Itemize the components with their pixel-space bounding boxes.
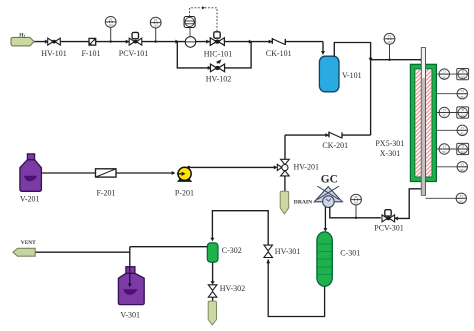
svg-text:DRAIN: DRAIN xyxy=(294,200,312,206)
svg-text:C-301: C-301 xyxy=(340,249,360,258)
gauge PI stem 2 xyxy=(155,28,157,42)
gauge PI stem 1 xyxy=(110,27,112,41)
gauge PI-1 xyxy=(105,17,116,28)
gauge PI-4 stem xyxy=(355,205,357,218)
svg-text:HV-102: HV-102 xyxy=(206,75,231,84)
wire GC to C-301 xyxy=(324,207,326,229)
valve PCV-101 xyxy=(126,40,130,44)
wire junction to reactor tube xyxy=(371,59,422,61)
gauge PI-3 xyxy=(384,33,395,44)
svg-text:HV-201: HV-201 xyxy=(294,163,319,172)
valve PCV-301 xyxy=(382,215,395,222)
node mix junction arrow xyxy=(369,58,373,62)
svg-text:CK-101: CK-101 xyxy=(266,49,292,58)
vessel C-301 xyxy=(317,232,332,286)
bottle V-301 xyxy=(118,267,144,305)
bottle V-201 xyxy=(20,154,42,191)
wire V-201 to pump xyxy=(41,172,95,174)
instrument TI row6 xyxy=(436,162,467,172)
filter F-201 xyxy=(96,169,117,177)
gauge PI-4 xyxy=(351,194,362,205)
gauge PI-2 xyxy=(150,17,161,28)
valve HIC-101 xyxy=(206,40,210,44)
instrument TI row2 xyxy=(436,89,467,99)
svg-text:VENT: VENT xyxy=(21,240,36,246)
svg-text:V-201: V-201 xyxy=(20,195,40,204)
vessel V-101 xyxy=(319,56,339,92)
svg-text:PCV-101: PCV-101 xyxy=(119,49,149,58)
svg-text:HV-101: HV-101 xyxy=(41,49,66,58)
wire pump discharge to HV-201 xyxy=(188,166,275,168)
check valve CK-201 xyxy=(285,134,329,136)
instrument TI row1 pair xyxy=(436,69,468,80)
valve HV-302 xyxy=(208,285,217,297)
node arrow into V-101 xyxy=(321,51,325,55)
reactor X-301 body xyxy=(410,64,436,181)
svg-text:H2: H2 xyxy=(19,33,25,39)
svg-text:HIC-101: HIC-101 xyxy=(204,49,232,58)
valve HV-201 three-way xyxy=(277,159,289,176)
flow indicator FE xyxy=(185,37,196,48)
wire main H2 feed line xyxy=(34,41,323,43)
svg-text:PX5-301: PX5-301 xyxy=(375,139,404,148)
wire HV-201 to drain vessel xyxy=(284,176,286,191)
filter F-101 xyxy=(89,38,96,45)
node bypass split xyxy=(175,40,179,44)
wire HV-301 up and over to C-302 xyxy=(212,211,268,245)
svg-text:X-301: X-301 xyxy=(380,149,400,158)
gauge PI-3 stem xyxy=(389,44,391,60)
wire drop into V-101 xyxy=(322,42,324,55)
reactor center tube xyxy=(421,48,425,196)
svg-text:V-301: V-301 xyxy=(120,311,140,320)
instrument TI row5 pair xyxy=(436,143,468,154)
node bypass rejoin xyxy=(249,40,253,44)
instrument TI row4 xyxy=(436,125,467,135)
wire C-302 to HV-302 xyxy=(212,262,214,282)
wire down to HV-201 xyxy=(284,135,286,159)
wire HV-302 to tube vessel xyxy=(212,297,214,301)
svg-text:P-201: P-201 xyxy=(175,189,194,198)
wire stem to HIC display xyxy=(189,28,191,37)
svg-text:HV-301: HV-301 xyxy=(275,247,300,256)
wire GC to PCV-301 xyxy=(330,207,381,218)
svg-text:PCV-301: PCV-301 xyxy=(374,224,404,233)
GC sampling valve xyxy=(314,186,342,207)
valve HV-301 xyxy=(266,260,270,264)
svg-text:HV-302: HV-302 xyxy=(220,284,245,293)
instrument gauge at tube bottom xyxy=(426,193,467,203)
wire F-201 to pump xyxy=(116,172,174,174)
svg-text:F-101: F-101 xyxy=(81,49,100,58)
wire V-101 outlet to reactor junction xyxy=(334,43,370,136)
svg-text:V-101: V-101 xyxy=(342,71,362,80)
wire V-301 dip tube xyxy=(129,267,131,284)
wire C-302 left to vent junction xyxy=(130,246,208,248)
vessel C-302 xyxy=(207,243,218,262)
instrument TI row3 pair xyxy=(436,107,468,118)
valve HV-101 xyxy=(45,40,49,44)
wire PCV-301 to reactor bottom xyxy=(396,189,422,219)
wire C-301 bottom loop to HV-301 xyxy=(268,259,324,316)
svg-text:F-201: F-201 xyxy=(96,189,115,198)
controller HIC display xyxy=(184,17,195,28)
svg-text:C-302: C-302 xyxy=(222,246,242,255)
wire dashed signal line xyxy=(190,8,217,32)
check valve CK-101 xyxy=(269,40,273,44)
pump P-201 xyxy=(177,166,192,182)
valve HV-102 xyxy=(208,66,212,70)
wire junction down to V-301 xyxy=(129,247,131,285)
vessel DRAIN collector xyxy=(280,191,289,214)
gas cylinder H2 xyxy=(11,33,34,46)
svg-text:GC: GC xyxy=(321,174,338,186)
wire bypass loop xyxy=(177,42,251,68)
vessel sample tube xyxy=(208,301,216,325)
flag VENT xyxy=(13,248,35,256)
wire vent line xyxy=(35,251,130,253)
svg-text:CK-201: CK-201 xyxy=(322,141,348,150)
